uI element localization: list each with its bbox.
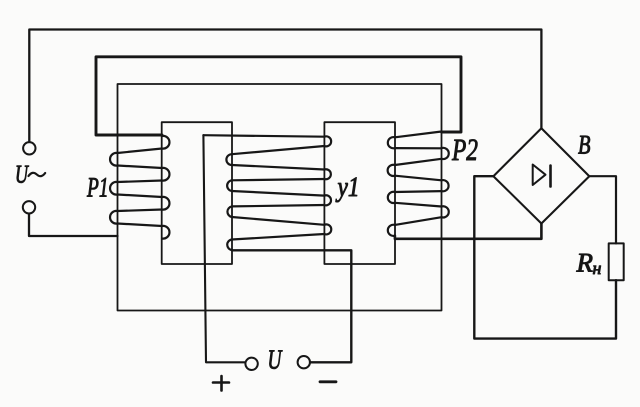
svg-text:у1: у1: [335, 172, 359, 203]
svg-text:н: н: [593, 258, 602, 278]
label U~: [15, 159, 45, 188]
wire bridge DC right vertex to resistor: [589, 176, 616, 243]
winding frame loop (rails of P1 and P2): [118, 84, 442, 311]
winding P1: [110, 136, 169, 239]
svg-text:U: U: [15, 159, 29, 188]
wire P2 bottom end to bridge AC bottom: [395, 224, 542, 239]
wire bridge DC left vertex to load loop: [474, 176, 616, 338]
svg-text:U: U: [268, 344, 283, 375]
minus sign: [320, 380, 336, 383]
label Rn: [576, 248, 602, 279]
svg-text:В: В: [578, 129, 591, 159]
wire U1 left lead to plus terminal: [203, 135, 245, 362]
core 1: [162, 122, 232, 264]
core 2: [324, 122, 395, 264]
terminal U plus: [245, 358, 257, 370]
wire bottom terminal to P1 left rail: [29, 214, 118, 236]
svg-text:P2: P2: [451, 132, 478, 167]
plus sign: [213, 376, 229, 391]
winding U1 control: [203, 135, 331, 250]
bridge rectifier B: [493, 128, 589, 223]
terminal U~ bottom: [23, 201, 35, 213]
diode inside bridge: [533, 165, 551, 187]
wire top terminal to bridge top vertex: [29, 30, 541, 143]
wire W1: P1 top end around to P2 top end (thick): [96, 57, 461, 135]
wire U1 right lead from winding exit to minus terminal: [232, 250, 351, 362]
svg-text:P1: P1: [86, 173, 108, 204]
terminal U~ top: [23, 142, 35, 154]
svg-text:R: R: [576, 248, 594, 278]
winding P2: [388, 132, 449, 236]
resistor Rn: [609, 243, 624, 280]
terminal U minus: [298, 356, 310, 368]
